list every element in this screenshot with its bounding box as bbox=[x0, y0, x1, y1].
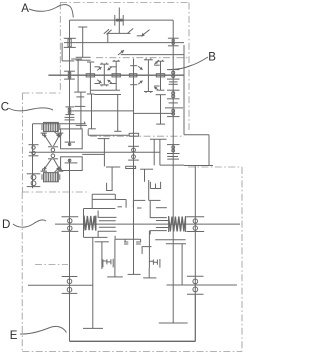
RS plate 2 bbox=[169, 102, 178, 104]
gear G1 roller 3 bbox=[121, 19, 123, 21]
gear box G2 tick bbox=[65, 141, 75, 143]
boundary box C top edge bbox=[22, 92, 60, 94]
pivot arrow to gearbox lower bbox=[55, 167, 60, 172]
left shaft D bearing tick bottom bbox=[62, 230, 79, 232]
clutch drum DR wall lower bbox=[150, 231, 167, 235]
boundary box left lower edge bbox=[21, 192, 23, 352]
label E bbox=[10, 330, 18, 342]
clutch pack CL1 hatch bbox=[45, 122, 57, 131]
gearbox lip vert bbox=[87, 130, 89, 136]
RS roller 1 bbox=[172, 39, 174, 41]
left shaft E bearing tick bottom bbox=[62, 292, 78, 294]
B step bottom bbox=[184, 165, 213, 167]
RS tick 4 bbox=[167, 78, 180, 80]
gear G1 left bar bbox=[114, 15, 116, 26]
D lower T L bbox=[95, 241, 109, 243]
clutch drum DR left bbox=[132, 200, 134, 208]
D left step bbox=[114, 194, 116, 200]
clutch drum DR wall upper bbox=[150, 201, 167, 218]
D right mid rail bbox=[149, 199, 161, 201]
yoke top bbox=[115, 238, 141, 240]
right shaft 2 bbox=[194, 166, 196, 342]
pivot circle LL bbox=[43, 169, 45, 171]
P1 arm lower-left bbox=[94, 83, 100, 85]
pivot link upper-right bbox=[54, 134, 61, 146]
center shaft roller 2 bbox=[132, 155, 136, 159]
mid rail bbox=[70, 110, 134, 112]
center shaft arm T upper bbox=[130, 65, 137, 67]
leader A bbox=[29, 5, 73, 18]
boundary box B bottom edge bbox=[90, 135, 184, 137]
boundary box C left edge bbox=[21, 93, 23, 192]
carrier arm 2 top flange2 bbox=[76, 96, 84, 98]
RS roller 4 bbox=[172, 75, 175, 78]
pivot link lower-right bbox=[54, 159, 61, 170]
ring gear R1 mesh bbox=[86, 74, 94, 77]
leader B bbox=[169, 57, 208, 70]
yoke plate R2 bbox=[136, 243, 141, 245]
pivot circle LR bbox=[59, 169, 61, 171]
boundary box A top edge bbox=[60, 2, 189, 4]
E rail right bbox=[167, 284, 238, 286]
clutch K1 feed bbox=[82, 27, 84, 57]
RS tick 12 bbox=[167, 158, 179, 160]
center shaft arm arrow upper bbox=[138, 66, 142, 70]
RS roller 7 bbox=[172, 109, 175, 112]
C left bearing tick 4 bbox=[27, 186, 41, 188]
boundary box A/B right edge bbox=[188, 3, 190, 131]
RS tick 5 bbox=[167, 89, 180, 91]
RS roller 9 bbox=[172, 146, 175, 149]
RS2 roller 1 bbox=[193, 219, 197, 223]
clutch drum DL top bbox=[118, 199, 127, 201]
C left roller 1 bbox=[32, 146, 35, 149]
post x149 bbox=[148, 268, 150, 278]
C input rail bbox=[33, 123, 86, 125]
pivot tick UL bbox=[41, 132, 47, 134]
shift rail T head bbox=[78, 26, 87, 28]
spring DR zigzag bbox=[169, 217, 186, 232]
left housing step vert bbox=[61, 43, 63, 61]
E rail left bbox=[28, 284, 93, 286]
yoke stub bbox=[114, 236, 116, 239]
pivot link lower-left bbox=[44, 159, 52, 170]
clutch drum DL right bbox=[125, 200, 127, 208]
clutch CL1 left bracket bbox=[41, 124, 43, 130]
svg-text:E: E bbox=[10, 330, 18, 342]
L2 stub bbox=[82, 153, 104, 155]
selector fork bar bbox=[108, 32, 131, 34]
plate right stem bbox=[144, 169, 146, 182]
D post x92 foot bbox=[83, 327, 103, 329]
RS tick 3 bbox=[167, 69, 180, 71]
housing A top wall bbox=[70, 19, 174, 21]
ring gear R1 stem bbox=[89, 62, 91, 94]
T post stem a bbox=[153, 139, 155, 165]
actuator arrow bbox=[141, 30, 149, 37]
gear G1 right bar bbox=[122, 15, 124, 26]
D lower T stem L bbox=[101, 242, 103, 269]
D left top rail bbox=[92, 193, 115, 195]
left shaft upper bbox=[69, 20, 71, 146]
clutch K1 plate lower bbox=[76, 59, 91, 61]
D center rail bbox=[55, 223, 240, 225]
gear box G3 tick bbox=[65, 162, 78, 164]
left shaft gear plate C1 bbox=[65, 116, 75, 118]
D spring housing left bbox=[83, 209, 85, 238]
center shaft roller 1 bbox=[132, 148, 136, 152]
pivot tick LR bbox=[57, 170, 63, 172]
RS tick 2 bbox=[168, 45, 179, 47]
left housing step horiz bbox=[62, 60, 74, 62]
left shaft tick C bbox=[65, 106, 74, 108]
gear box G3 roller bbox=[68, 159, 71, 162]
P2 arrow lower-left bbox=[154, 87, 158, 90]
clutch drum DL tick bbox=[118, 206, 123, 208]
U bracket left bbox=[107, 183, 113, 191]
P2 arm lower-left bbox=[154, 85, 159, 87]
left shaft D bearing tick top bbox=[62, 216, 79, 218]
output flange left bbox=[69, 293, 71, 341]
RS roller 3 bbox=[172, 71, 175, 74]
clutch pack CL1 frame bbox=[44, 122, 59, 131]
L corner bbox=[142, 247, 151, 254]
RS tick 10 bbox=[167, 153, 180, 155]
post x149 foot bbox=[143, 277, 156, 279]
C left roller 2 bbox=[32, 151, 35, 154]
coupler block bbox=[126, 166, 136, 168]
label C bbox=[1, 102, 9, 114]
yoke plate R1 bbox=[136, 241, 141, 243]
B step right bbox=[208, 135, 210, 166]
left shaft D roller 1 bbox=[68, 219, 72, 223]
ring link rail bbox=[91, 89, 113, 91]
svg-text:A: A bbox=[21, 3, 29, 15]
center shaft arm arrow lower bbox=[138, 81, 142, 85]
center shaft bearing tick bottom bbox=[128, 159, 139, 161]
post x115 bbox=[114, 239, 116, 277]
carrier arm 1 stem bbox=[77, 59, 79, 92]
post x115 foot bbox=[107, 276, 123, 278]
T post x104 tick bbox=[98, 138, 110, 140]
drop post x112 bbox=[111, 167, 113, 183]
RS tick 7 wide bbox=[165, 107, 183, 109]
pivot tick LL bbox=[41, 170, 47, 172]
clutch drum DR top bbox=[133, 199, 145, 201]
rail y55 bbox=[121, 54, 184, 56]
RS plate 1 bbox=[169, 81, 178, 83]
P1 arm upper-right bbox=[110, 66, 116, 68]
drum DR wall stem bbox=[148, 231, 150, 260]
RS tick 11 bbox=[167, 156, 178, 158]
C center roller 2 bbox=[51, 154, 55, 158]
low rail piece bbox=[160, 164, 184, 166]
RS tick 9 bbox=[167, 144, 180, 146]
planet carrier P2 bbox=[144, 58, 153, 93]
yoke leg L bbox=[124, 239, 126, 242]
gear box G2 frame bbox=[61, 129, 83, 149]
left shaft bearing ball 1 bbox=[68, 72, 71, 75]
leader C bbox=[9, 108, 54, 111]
clutch pack CL2 frame bbox=[44, 173, 59, 182]
RS2 bearing tick top bbox=[187, 216, 205, 218]
actuator base tick bbox=[137, 35, 143, 37]
D lower T R bbox=[166, 243, 186, 245]
gear box G2 roller bbox=[68, 143, 70, 145]
carrier arm 2 stem bbox=[80, 92, 82, 129]
P1 arm upper-left bbox=[94, 66, 100, 68]
P1 arrow upper-right bbox=[108, 67, 112, 70]
C center bearing tick top bbox=[48, 146, 58, 148]
P1 arrow lower-right bbox=[108, 80, 112, 83]
left shaft E roller 2 bbox=[67, 287, 72, 292]
RS plate 1b bbox=[169, 83, 178, 85]
hanger post foot bbox=[114, 130, 121, 132]
D post x92 lower bbox=[92, 237, 94, 328]
RS roller 6 bbox=[172, 95, 175, 98]
sun gear S1 bbox=[112, 60, 120, 90]
clutch CL2 left bracket bbox=[41, 174, 43, 180]
boundary box C bottom edge bbox=[22, 191, 89, 193]
RS2 roller 2 bbox=[193, 226, 197, 230]
carrier arm 1 top flange bbox=[71, 58, 82, 60]
RS2 E roller 1 bbox=[193, 279, 198, 284]
C left shaft bbox=[32, 124, 34, 189]
center shaft gear mesh bbox=[129, 133, 138, 136]
pivot tick UR bbox=[57, 132, 63, 134]
C input rail stub bbox=[84, 122, 86, 124]
C rail bbox=[29, 151, 160, 153]
plate under rail L bbox=[106, 166, 120, 168]
RS roller 10 bbox=[172, 149, 175, 152]
spring DL bar left bbox=[83, 215, 85, 230]
clutch pack CL2 hatch bbox=[45, 173, 57, 182]
fork stem bbox=[107, 33, 109, 42]
plate DR lower bbox=[156, 227, 169, 229]
RS2 bearing tick bottom bbox=[187, 231, 205, 233]
center shaft mesh band bbox=[129, 74, 136, 77]
yoke plate L2 bbox=[124, 243, 128, 245]
left shaft gear plate lower bbox=[64, 46, 76, 48]
pivot arrow to gearbox upper bbox=[55, 132, 60, 137]
spring DR bar right bbox=[185, 216, 187, 232]
RS tick 1 bbox=[168, 37, 179, 39]
B housing wall bbox=[183, 45, 185, 135]
D lower plate L bbox=[84, 236, 108, 238]
spring DR bar left bbox=[168, 216, 170, 232]
mid rail right piece bbox=[134, 112, 174, 114]
plate DL lower bbox=[99, 226, 116, 228]
label A bbox=[21, 3, 29, 15]
RS2 E bearing tick bottom bbox=[187, 293, 204, 295]
D post x92 upper bbox=[91, 194, 93, 208]
RS roller 5 bbox=[172, 92, 175, 95]
lower band rail right bbox=[156, 94, 166, 96]
RS roller 8 bbox=[172, 112, 175, 115]
planet carrier P1 bbox=[100, 63, 109, 87]
pivot circle UR bbox=[59, 133, 61, 135]
yoke leg R bbox=[140, 239, 142, 242]
left shaft gear mesh bbox=[68, 39, 71, 47]
spring DL zigzag bbox=[84, 216, 96, 230]
plate DR upper bbox=[156, 220, 169, 222]
C center roller 1 bbox=[51, 148, 55, 152]
gearbox lid post foot bbox=[88, 128, 96, 130]
P1 arm lower-right bbox=[110, 83, 116, 85]
boundary box bottom edge bbox=[22, 351, 242, 353]
P2 arrow upper-right bbox=[154, 61, 158, 64]
left shaft gear plate upper bbox=[64, 37, 76, 39]
ring gear R1 bottom tick bbox=[87, 93, 94, 95]
leader E bbox=[20, 326, 67, 334]
C left bearing tick 1 bbox=[29, 144, 39, 146]
RS tick 6 bbox=[167, 98, 180, 100]
carrier arm 2 flange bbox=[76, 124, 87, 126]
left shaft E roller 1 bbox=[67, 279, 72, 284]
C left bearing tick 2 bbox=[29, 155, 39, 157]
RS2 E bearing tick top bbox=[187, 275, 204, 277]
sun gear S3 bbox=[156, 60, 164, 90]
pivot circle UL bbox=[43, 133, 45, 135]
plate DL upper bbox=[99, 220, 116, 222]
gearbox lid post bbox=[91, 95, 93, 129]
C left roller 3 bbox=[31, 175, 36, 180]
main shaft rail bbox=[48, 74, 184, 76]
leader D bbox=[13, 220, 46, 227]
output flange right bbox=[194, 294, 196, 341]
post x148 upper bbox=[148, 180, 150, 200]
left shaft gear plate C2 bbox=[65, 119, 75, 121]
left shaft roller 1 bbox=[68, 108, 71, 111]
svg-text:B: B bbox=[208, 51, 216, 63]
boundary box right edge bbox=[241, 167, 243, 352]
right shaft bbox=[172, 20, 174, 323]
spring DL bar right bbox=[95, 215, 97, 230]
label D bbox=[2, 219, 10, 231]
B step top bbox=[184, 134, 209, 136]
fork hatch mark 1 bbox=[104, 29, 109, 34]
output flange bottom bbox=[70, 340, 196, 342]
input shaft bbox=[118, 8, 120, 34]
clutch CL1 right bracket bbox=[59, 124, 61, 130]
T post stem b bbox=[159, 139, 161, 165]
C left bearing tick 3 bbox=[27, 173, 41, 175]
P1 arrow lower-left bbox=[97, 80, 101, 83]
left shaft E bearing tick top bbox=[62, 276, 78, 278]
center shaft bbox=[133, 59, 135, 275]
S3 stem extension bbox=[160, 95, 162, 124]
left shaft bearing upper tick bbox=[64, 70, 75, 72]
carrier arm 1 bottom flange bbox=[74, 91, 86, 93]
yoke plate L1 bbox=[124, 241, 128, 243]
left shaft bearing ball 2 bbox=[68, 76, 71, 79]
svg-text:D: D bbox=[2, 219, 10, 231]
center shaft bearing tick top bbox=[128, 145, 139, 147]
D left mid rail bbox=[92, 198, 117, 200]
countershaft rail bbox=[64, 42, 184, 44]
center shaft arm T lower bbox=[130, 84, 137, 86]
svg-text:C: C bbox=[1, 102, 9, 114]
right shaft foot bbox=[159, 322, 188, 324]
plate right bbox=[140, 168, 153, 170]
gear G1 roller 2 bbox=[118, 19, 120, 21]
C center bearing tick bottom bbox=[48, 158, 58, 160]
ring gear R1 top tick bbox=[87, 61, 94, 63]
center shaft foot bbox=[128, 273, 141, 275]
gear G1 roller 1 bbox=[116, 19, 118, 21]
fork hatch mark 2 bbox=[106, 30, 111, 35]
clutch CL2 right bracket bbox=[59, 174, 61, 180]
label B bbox=[208, 51, 216, 63]
C left roller 4 bbox=[31, 181, 36, 186]
gear box G3 frame bbox=[61, 157, 83, 171]
boundary box A left edge bbox=[59, 3, 61, 91]
RS roller 2 bbox=[172, 42, 174, 44]
clutch drum DL wall lower bbox=[98, 231, 116, 237]
hanger post x117 bbox=[117, 95, 119, 132]
boundary box right mid edge bbox=[188, 166, 242, 168]
U bracket right bbox=[150, 182, 160, 189]
clutch K1 plate upper bbox=[76, 56, 91, 58]
P1 arrow upper-left bbox=[97, 67, 101, 70]
left shaft roller 2 bbox=[68, 111, 71, 114]
gearbox lip horiz bbox=[88, 134, 129, 136]
fork diagonal link bbox=[128, 28, 134, 33]
D lower plate R bbox=[155, 239, 185, 241]
D lower T stem R bbox=[181, 244, 183, 285]
pivot link upper-left bbox=[44, 134, 52, 146]
plate DR top bbox=[156, 207, 167, 209]
T post x104 stem bbox=[103, 139, 105, 167]
clutch drum DL wall upper bbox=[98, 211, 116, 218]
boundary box B top edge bbox=[96, 57, 188, 59]
D spring housing top bbox=[84, 208, 116, 210]
m bracket left bbox=[103, 259, 113, 268]
carrier arm 2 mid tick bbox=[75, 105, 86, 107]
left shaft bearing lower tick bbox=[64, 78, 75, 80]
left shaft D roller 2 bbox=[68, 226, 72, 230]
S3 foot bbox=[156, 123, 165, 125]
T post x160 tick bbox=[150, 138, 167, 140]
clutch drum DR tick bbox=[137, 207, 142, 209]
A-box lower arrow bbox=[118, 50, 124, 55]
P2 arm upper-right bbox=[154, 64, 159, 66]
left shaft lower bbox=[69, 159, 71, 341]
boundary box D bottom edge bbox=[35, 264, 68, 266]
left shaft tick C2 bbox=[65, 114, 74, 116]
m bracket right bbox=[149, 259, 160, 268]
lower band rail left bbox=[94, 94, 121, 96]
RS2 E roller 2 bbox=[193, 287, 198, 292]
RS tick 8 bbox=[167, 116, 180, 118]
